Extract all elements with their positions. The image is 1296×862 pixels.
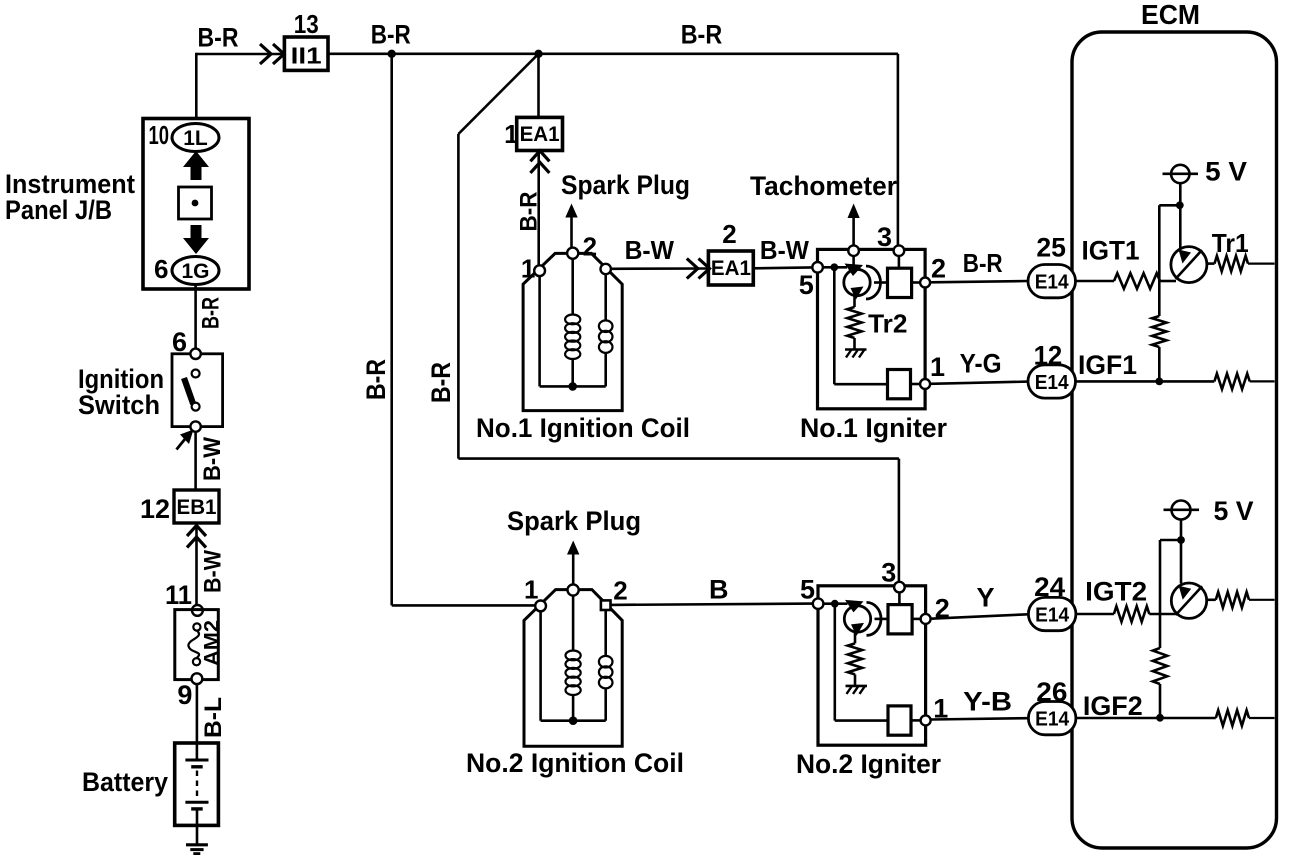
- svg-text:5: 5: [799, 270, 814, 300]
- coil common rail: [541, 719, 606, 722]
- wire to ECM internal: [1248, 263, 1275, 265]
- switch blade: [184, 378, 193, 404]
- wire No.1 igniter pin 1 to E14: [930, 382, 1028, 384]
- coil high tension terminal (No.2): [568, 584, 579, 595]
- pin 3 internal lead: [898, 256, 901, 268]
- svg-text:Y-G: Y-G: [960, 349, 1002, 379]
- svg-text:No.1 Ignition Coil: No.1 Ignition Coil: [476, 413, 690, 443]
- svg-text:E14: E14: [1035, 372, 1070, 394]
- pin 2 terminal: [921, 614, 931, 624]
- svg-text:13: 13: [294, 9, 319, 39]
- wire No.1 igniter pin 2 to E14: [930, 281, 1028, 282]
- svg-text:E14: E14: [1035, 272, 1070, 294]
- coil terminal pin 1 (No.1): [534, 265, 545, 276]
- connector E14 (IGT1): [1028, 265, 1076, 298]
- svg-text:1G: 1G: [181, 260, 209, 283]
- spark plug lead arrow (No.1): [570, 214, 573, 247]
- 5 V supply (bottom): [1172, 501, 1191, 520]
- svg-text:Tachometer: Tachometer: [750, 171, 897, 201]
- svg-text:B-W: B-W: [199, 437, 226, 481]
- coil terminal pin 2 (No.2): [601, 600, 611, 610]
- svg-text:Tr2: Tr2: [868, 309, 907, 339]
- svg-text:Y-B: Y-B: [963, 686, 1012, 716]
- connector oval 1G: [172, 257, 219, 285]
- svg-text:B: B: [709, 574, 729, 604]
- svg-text:B-R: B-R: [963, 248, 1003, 278]
- coil terminal pin 1 (No.2): [535, 601, 546, 612]
- transistor emitter lead: [853, 295, 856, 308]
- svg-text:2: 2: [583, 231, 597, 261]
- wire transistor emitter to resistor: [1207, 598, 1216, 601]
- transistor collector link: [874, 281, 888, 284]
- fuse element top contact: [193, 623, 200, 630]
- AM2 fuse top terminal: [192, 605, 203, 616]
- ground (No.2 igniter): [846, 685, 868, 688]
- wire No.2 igniter pin 1 to E14: [931, 718, 1028, 719]
- wire block to pin 2: [912, 618, 921, 621]
- AM2 fuse bottom terminal: [192, 673, 203, 684]
- svg-text:B-R: B-R: [371, 20, 411, 50]
- feedback block (pin 1): [888, 706, 911, 735]
- connector arrows into EA1 (upward): [530, 151, 549, 162]
- tachometer lead arrow: [852, 216, 855, 245]
- output stage block (pin 2): [888, 605, 912, 634]
- wire block to pin 1: [911, 719, 922, 722]
- wire branch to pull-up resistor (bottom): [1160, 539, 1181, 542]
- wire resistor to Tr1 base: [1160, 280, 1176, 283]
- ground lead: [853, 338, 856, 349]
- wire EA1 to No.1 coil pin 1: [537, 151, 540, 266]
- connector E14 (IGF2): [1028, 702, 1076, 735]
- connector E14 (IGF1): [1028, 365, 1076, 398]
- internal junction square with node: [179, 187, 212, 219]
- wire resistor to IGF2 line: [1159, 684, 1162, 718]
- wire E14 to resistor (IGF1): [1076, 380, 1215, 383]
- pin 1 terminal: [920, 379, 930, 389]
- connector arrows into II1: [260, 44, 271, 64]
- wire junction to EA1 connector: [537, 54, 540, 118]
- svg-text:9: 9: [177, 680, 192, 710]
- svg-text:2: 2: [722, 219, 736, 249]
- wire Tr1 emitter to resistor: [1207, 262, 1215, 265]
- svg-text:EA1: EA1: [711, 257, 751, 280]
- resistor (pull-up IGF1): [1152, 316, 1166, 347]
- svg-text:10: 10: [149, 120, 170, 150]
- wire No.2 coil pin 2 to No.2 igniter pin 5: [611, 604, 813, 605]
- coil primary winding (No.2): [604, 610, 607, 657]
- internal link arrow down: [183, 225, 209, 254]
- svg-text:Spark Plug: Spark Plug: [561, 170, 690, 200]
- fuse element wire: [188, 631, 199, 659]
- coil common rail: [540, 385, 606, 388]
- wire B-R from Instrument Panel J/B to II1 connector: [196, 53, 282, 56]
- battery negative lead: [196, 809, 199, 844]
- resistor (IGT2): [1114, 606, 1149, 622]
- spark plug lead arrow (No.2): [572, 551, 575, 584]
- wire switch to EB1: [194, 432, 197, 490]
- output stage block (pin 2): [888, 268, 912, 297]
- coil internal node: [569, 716, 578, 725]
- fuse element bottom contact: [193, 658, 200, 665]
- ignition switch top terminal: [190, 349, 200, 359]
- resistor (pull-up IGF2): [1153, 648, 1167, 684]
- svg-text:2: 2: [613, 576, 627, 606]
- node IGF2 junction: [1156, 714, 1164, 722]
- No.2 Igniter box: [818, 586, 926, 745]
- svg-text:6: 6: [154, 254, 168, 284]
- node junction to No.2 coil branch: [388, 50, 396, 58]
- wire branch to pull-up resistor: [1159, 204, 1180, 207]
- igniter internal wire from pin 5: [823, 602, 847, 605]
- 5 V supply (top): [1171, 165, 1189, 183]
- wire E14 to resistor (IGF2): [1076, 717, 1216, 720]
- ground (battery): [186, 843, 208, 846]
- wire 5 V to Tr1 collector: [1179, 183, 1182, 249]
- pin 1 terminal: [921, 715, 931, 725]
- wire AM2 to battery: [196, 684, 199, 743]
- svg-text:No.2 Igniter: No.2 Igniter: [796, 749, 941, 779]
- svg-text:5 V: 5 V: [1214, 496, 1254, 526]
- svg-text:IGT2: IGT2: [1085, 577, 1147, 607]
- switch contact upper: [192, 370, 200, 378]
- svg-text:IGT1: IGT1: [1082, 236, 1140, 266]
- svg-text:3: 3: [881, 557, 896, 587]
- svg-text:B-W: B-W: [760, 235, 809, 265]
- svg-text:EA1: EA1: [520, 123, 560, 146]
- wire B-R bus from II1 to No.1 igniter pin 3: [328, 52, 898, 55]
- igniter internal rail to pin 1: [833, 604, 836, 721]
- svg-text:Y: Y: [977, 582, 995, 612]
- svg-text:Battery: Battery: [82, 767, 168, 797]
- svg-text:B-W: B-W: [200, 550, 227, 593]
- igniter internal node: [831, 600, 839, 608]
- ground lead: [854, 674, 857, 685]
- power transistor Tr (No.2 igniter): [844, 606, 870, 632]
- resistor (IGF2): [1216, 710, 1249, 726]
- igniter internal rail to pin 1: [833, 267, 836, 384]
- coil primary winding (No.1): [604, 274, 607, 321]
- svg-text:5: 5: [800, 575, 815, 605]
- svg-text:No.2 Ignition Coil: No.2 Ignition Coil: [466, 748, 684, 778]
- battery plate positive long: [185, 759, 208, 762]
- transistor emitter lead: [854, 631, 857, 644]
- svg-text:Panel J/B: Panel J/B: [5, 195, 112, 225]
- ignition switch box: [172, 354, 223, 427]
- No.1 ignition coil body: [523, 253, 622, 410]
- wire resistor to Tr base: [1149, 613, 1176, 616]
- svg-text:B-R: B-R: [198, 297, 225, 329]
- junction connector EA1 (igniter side): [708, 251, 753, 285]
- switch actuator arrow: [177, 434, 190, 450]
- coil high tension terminal (No.1): [567, 248, 578, 259]
- igniter internal wire from pin 5: [823, 266, 847, 269]
- svg-text:1: 1: [504, 119, 518, 149]
- svg-text:B-R: B-R: [198, 23, 239, 53]
- wire resistor to IGF1 line: [1158, 347, 1161, 381]
- battery internal lead: [196, 743, 199, 760]
- pin 3 terminal: [894, 582, 905, 593]
- svg-text:B-R: B-R: [426, 362, 456, 403]
- svg-text:5 V: 5 V: [1205, 157, 1247, 187]
- transistor Tr1: [1171, 247, 1207, 283]
- coil primary lead from pin 1: [538, 276, 541, 386]
- svg-text:B-R: B-R: [516, 192, 543, 232]
- ground (No.1 igniter): [845, 348, 867, 351]
- wire branch down to No.2 ignition coil pin 1: [390, 54, 393, 606]
- pin 5 terminal: [812, 262, 823, 273]
- node supply junction: [1176, 201, 1184, 209]
- svg-text:1: 1: [930, 352, 945, 382]
- svg-text:25: 25: [1036, 233, 1066, 263]
- svg-text:2: 2: [931, 254, 946, 284]
- connector oval 1L: [172, 124, 219, 152]
- wire block to pin 2: [912, 281, 921, 284]
- wire to ECM internal: [1250, 380, 1275, 382]
- node junction to EA1 branch: [534, 50, 542, 58]
- coil internal node: [568, 382, 577, 391]
- wire 1G to ignition switch: [194, 285, 197, 350]
- wire diagonal branch to No.2 igniter feed: [458, 54, 538, 134]
- svg-text:B-L: B-L: [200, 697, 227, 738]
- svg-text:3: 3: [877, 222, 892, 252]
- svg-text:ECM: ECM: [1141, 0, 1200, 30]
- junction connector EB1: [174, 490, 219, 523]
- resistor (IGT1): [1114, 273, 1160, 289]
- wire EA1 to No.1 igniter pin 5: [753, 266, 812, 269]
- svg-text:E14: E14: [1035, 604, 1070, 626]
- svg-text:B-R: B-R: [681, 20, 723, 50]
- svg-text:Spark Plug: Spark Plug: [507, 506, 641, 536]
- svg-text:II1: II1: [291, 43, 322, 69]
- coil secondary winding (No.1): [571, 259, 574, 315]
- wire E14 to resistor: [1076, 280, 1115, 283]
- svg-text:11: 11: [165, 580, 192, 610]
- pin 3 internal lead: [898, 592, 901, 604]
- wire to ECM internal: [1249, 599, 1275, 601]
- svg-text:1: 1: [524, 574, 538, 604]
- battery plate positive long lower: [185, 801, 208, 804]
- wire EB1 to AM2 fuse: [195, 523, 198, 605]
- resistor (emitter to ground): [848, 643, 862, 674]
- svg-text:B-W: B-W: [625, 235, 675, 265]
- tachometer internal lead: [852, 253, 855, 266]
- battery plate negative short lower: [191, 807, 203, 810]
- No.1 Igniter box: [818, 249, 926, 408]
- pin 5 terminal: [813, 598, 824, 609]
- transistor (No.2 output): [1171, 583, 1206, 618]
- svg-text:1L: 1L: [183, 127, 208, 150]
- coil secondary winding (No.2): [572, 596, 575, 651]
- svg-text:1: 1: [521, 253, 535, 283]
- svg-text:IGF1: IGF1: [1078, 350, 1137, 380]
- resistor (Tr1 emitter): [1215, 256, 1249, 272]
- svg-text:AM2: AM2: [200, 620, 224, 666]
- resistor (bottom Tr emitter): [1216, 592, 1249, 608]
- svg-text:E14: E14: [1035, 709, 1070, 731]
- switch contact lower: [192, 403, 200, 411]
- svg-text:IGF2: IGF2: [1083, 691, 1143, 721]
- wire to ECM internal: [1249, 717, 1275, 719]
- igniter internal node: [830, 263, 838, 271]
- fuse AM2 box: [175, 610, 219, 680]
- instrument panel junction block box: [143, 119, 249, 290]
- No.2 ignition coil body: [524, 590, 622, 747]
- power transistor Tr (No.1 igniter): [844, 269, 870, 295]
- wire No.1 coil pin 2 to EA1: [611, 267, 709, 270]
- battery cells dashed link: [196, 771, 198, 800]
- node supply junction (bottom): [1177, 536, 1185, 544]
- svg-text:Switch: Switch: [78, 390, 160, 420]
- wire 5 V to transistor collector: [1180, 520, 1183, 584]
- feedback block (pin 1): [888, 370, 911, 399]
- junction connector EA1 (No.1 coil): [517, 117, 563, 150]
- coil terminal pin 2 (No.1): [601, 264, 611, 274]
- connector arrows into EA1: [687, 259, 698, 279]
- node IGF1 junction: [1155, 378, 1163, 386]
- battery box: [175, 743, 219, 825]
- coil primary lead from pin 1: [539, 611, 542, 720]
- transistor collector link: [875, 618, 889, 621]
- ignition switch bottom terminal: [190, 421, 200, 431]
- svg-text:12: 12: [140, 494, 170, 524]
- svg-text:B-R: B-R: [361, 359, 391, 400]
- wire No.2 igniter pin 2 to E14: [931, 614, 1028, 618]
- battery plate negative short: [191, 765, 203, 768]
- wire E14 to resistor (IGT2): [1076, 613, 1114, 616]
- junction connector II1: [284, 37, 328, 70]
- tachometer terminal: [848, 245, 859, 256]
- svg-text:EB1: EB1: [177, 496, 217, 519]
- connector E14 (IGT2): [1028, 597, 1076, 630]
- internal link arrow up: [183, 151, 209, 180]
- resistor (IGF1): [1214, 374, 1249, 390]
- connector arrows into EB1: [187, 526, 206, 537]
- pin 3 terminal: [894, 245, 905, 256]
- wire block to pin 1: [911, 383, 922, 386]
- pin 2 terminal: [920, 278, 930, 288]
- svg-text:No.1 Igniter: No.1 Igniter: [800, 413, 947, 443]
- ECM box: [1072, 32, 1277, 848]
- resistor (emitter to ground): [847, 307, 861, 338]
